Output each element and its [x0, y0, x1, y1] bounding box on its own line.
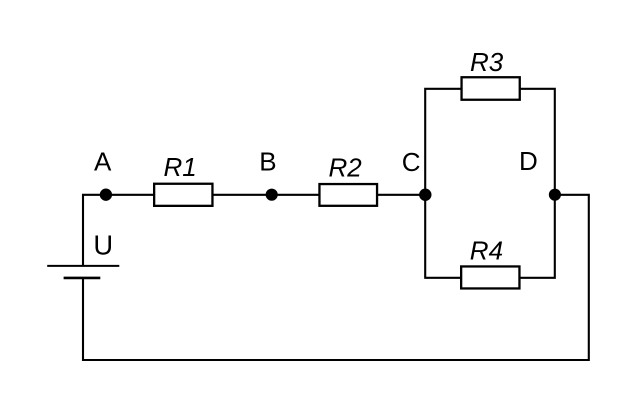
svg-text:R3: R3: [470, 47, 504, 77]
svg-text:R1: R1: [164, 152, 197, 182]
svg-text:U: U: [93, 230, 113, 261]
svg-text:R2: R2: [329, 153, 363, 183]
svg-text:D: D: [519, 146, 538, 176]
svg-text:C: C: [402, 147, 421, 177]
svg-text:A: A: [94, 147, 112, 177]
svg-text:B: B: [259, 147, 276, 177]
svg-text:R4: R4: [470, 235, 503, 265]
